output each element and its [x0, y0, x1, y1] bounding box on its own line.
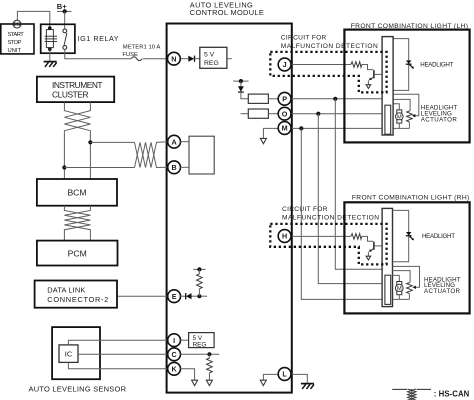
dotted box LH	[270, 52, 386, 93]
chassis ground (L)	[301, 384, 314, 389]
motor feed RH	[393, 275, 400, 281]
wire B to CAN box	[180, 166, 189, 168]
svg-text:CONTROL MODULE: CONTROL MODULE	[190, 8, 264, 17]
svg-text:ACTUATOR: ACTUATOR	[424, 288, 461, 295]
svg-text:I: I	[173, 336, 175, 345]
motor brush bottom RH	[397, 291, 402, 294]
svg-text:L: L	[282, 370, 287, 379]
svg-text:DATA LINK: DATA LINK	[47, 285, 85, 294]
pull-up power bar (E)	[193, 268, 205, 270]
wire DLC to E	[117, 295, 168, 297]
resistor (H base)	[351, 234, 362, 240]
terminal B	[168, 161, 181, 174]
K wire	[180, 369, 194, 380]
B+ junction dot	[63, 9, 67, 13]
HS-CAN legend wire	[392, 388, 407, 390]
svg-text:A: A	[171, 137, 176, 146]
svg-text:PCM: PCM	[68, 248, 87, 258]
front combination light LH box	[344, 30, 469, 143]
svg-text:: HS-CAN: : HS-CAN	[434, 389, 470, 398]
resistor (P)	[248, 94, 268, 103]
pot feed RH	[393, 271, 411, 283]
connector strip LH	[382, 37, 393, 135]
motor brush top LH	[397, 110, 402, 113]
fuse METER1 10A	[131, 57, 142, 61]
transistor Q RH	[373, 242, 375, 250]
svg-text:HEADLIGHT: HEADLIGHT	[420, 61, 453, 68]
DATA LINK CONNECTOR-2 box	[35, 281, 117, 308]
drop wire O to RH	[318, 114, 382, 284]
twisted pair BCM-PCM	[64, 206, 90, 241]
5V REG box 1	[200, 47, 227, 68]
ground arrow (C)	[206, 380, 212, 385]
svg-text:BCM: BCM	[67, 187, 86, 197]
headlight symbol RH	[406, 232, 411, 236]
svg-text:H: H	[282, 232, 287, 241]
PCM box	[37, 241, 118, 266]
instrument cluster box	[37, 77, 114, 103]
drop wire M to RH	[301, 128, 382, 299]
resistor (J base)	[351, 62, 362, 68]
wire to A twist	[90, 141, 134, 143]
ground arrow (K)	[192, 380, 198, 385]
motor brush bottom LH	[397, 120, 402, 123]
wire resistor to transistor RH	[362, 236, 374, 241]
IG1 relay box	[41, 24, 75, 53]
headlight feed loop LH	[393, 39, 409, 91]
CAN transceiver box	[189, 136, 214, 174]
wire IC to K	[68, 362, 167, 368]
svg-text:P: P	[282, 95, 287, 104]
wiper feed LH	[393, 94, 419, 115]
resistor (O)	[248, 109, 268, 118]
ground arrow (Q RH)	[366, 256, 371, 260]
motor feed LH	[393, 104, 399, 110]
wire to B twist	[64, 167, 134, 169]
svg-text:IC: IC	[65, 350, 73, 359]
motor brush top RH	[397, 282, 402, 285]
svg-text:M: M	[282, 124, 288, 133]
junction dot O	[316, 112, 320, 116]
svg-text:CONNECTOR-2: CONNECTOR-2	[47, 295, 108, 304]
ground arrow (L)	[260, 380, 266, 385]
svg-text:METER1 10 A: METER1 10 A	[123, 45, 161, 51]
svg-text:B+: B+	[57, 2, 67, 11]
connector inner rect RH	[385, 275, 391, 304]
terminal E	[168, 290, 181, 303]
svg-text:K: K	[171, 365, 177, 374]
auto leveling control module box	[167, 24, 292, 393]
wire B+ to relay switch	[64, 11, 66, 29]
BCM box	[37, 179, 117, 206]
svg-text:2S: 2S	[14, 22, 21, 28]
junction dot M	[299, 126, 303, 130]
svg-text:J: J	[283, 60, 287, 69]
svg-text:MALFUNCTION DETECTION: MALFUNCTION DETECTION	[282, 214, 379, 221]
L left wire	[263, 374, 278, 380]
ground arrow (M)	[260, 138, 266, 143]
svg-text:FRONT COMBINATION LIGHT (RH): FRONT COMBINATION LIGHT (RH)	[352, 194, 469, 201]
5V REG box 2	[189, 333, 215, 348]
terminal M	[278, 122, 291, 135]
junction dot P	[333, 97, 337, 101]
motor return RH	[393, 295, 410, 300]
front combination light RH box	[344, 202, 469, 313]
M wire to LH light	[291, 127, 382, 129]
svg-text:CLUSTER: CLUSTER	[52, 89, 89, 99]
resistor (C)	[208, 354, 210, 358]
svg-text:O: O	[282, 109, 288, 118]
stub from 5V REG	[227, 58, 232, 60]
H wire	[291, 235, 351, 237]
diode to P resistor	[240, 81, 242, 86]
terminal J	[278, 58, 291, 71]
svg-text:UNIT: UNIT	[8, 48, 22, 54]
relay coil ground wire	[49, 49, 51, 61]
junction dot (A branch)	[88, 140, 92, 144]
IC box	[59, 345, 78, 363]
relay switch	[63, 29, 67, 33]
svg-text:IG1 RELAY: IG1 RELAY	[78, 34, 119, 43]
svg-text:5 V: 5 V	[204, 51, 215, 58]
svg-text:B: B	[171, 163, 176, 172]
terminal P	[278, 92, 291, 105]
drop wire P to RH	[335, 99, 382, 269]
motor M LH	[396, 113, 404, 121]
svg-text:FUSE: FUSE	[122, 52, 138, 58]
motor return LH	[393, 123, 409, 128]
twisted pair (A/B)	[135, 142, 168, 168]
svg-text:FRONT COMBINATION LIGHT (LH): FRONT COMBINATION LIGHT (LH)	[351, 23, 468, 30]
terminal I	[168, 334, 181, 347]
wire fuse to N	[143, 58, 168, 60]
svg-text:ACTUATOR: ACTUATOR	[421, 116, 458, 123]
headlight feed loop RH	[393, 210, 409, 261]
terminal N	[168, 52, 181, 65]
terminal K	[168, 362, 181, 375]
L right wire	[291, 374, 307, 383]
START STOP UNIT box	[1, 24, 34, 54]
svg-text:N: N	[171, 54, 176, 63]
svg-text:HEADLIGHT: HEADLIGHT	[422, 233, 455, 240]
svg-text:STOP: STOP	[8, 40, 22, 46]
svg-text:CIRCUIT FOR: CIRCUIT FOR	[282, 206, 328, 213]
wire IC to C	[78, 353, 168, 355]
wire 2S to relay coil	[17, 11, 49, 27]
pull-up resistor (E)	[198, 269, 200, 273]
svg-text:REG: REG	[204, 60, 219, 67]
wiper feed RH	[393, 266, 420, 287]
terminal C	[168, 348, 181, 361]
svg-text:C: C	[171, 350, 176, 359]
svg-text:REG: REG	[193, 342, 207, 349]
wire A to CAN box	[180, 141, 189, 143]
svg-text:AUTO LEVELING SENSOR: AUTO LEVELING SENSOR	[29, 385, 127, 394]
connector 2S	[13, 20, 21, 28]
diode at E	[180, 295, 185, 297]
chassis ground (relay)	[44, 62, 57, 67]
connector strip RH	[382, 208, 392, 306]
wire N to diode	[180, 58, 188, 60]
P wire to LH light	[291, 98, 382, 100]
motor M RH	[396, 284, 404, 292]
wire I to 5V REG	[180, 339, 188, 341]
terminal O	[278, 107, 291, 120]
diode at N	[188, 56, 194, 62]
svg-text:MALFUNCTION DETECTION: MALFUNCTION DETECTION	[281, 43, 378, 50]
C wire	[180, 353, 219, 355]
terminal L	[278, 368, 291, 381]
connector inner rect LH	[385, 105, 391, 134]
wire IC to I	[68, 340, 167, 345]
relay coil	[45, 30, 57, 48]
M ground stub	[263, 128, 278, 138]
svg-text:E: E	[172, 292, 177, 301]
twisted pair cluster-BCM	[64, 102, 90, 179]
dotted box RH	[270, 224, 386, 265]
auto leveling sensor box	[52, 327, 100, 379]
J wire	[291, 64, 351, 66]
B+ supply bar	[57, 10, 72, 12]
svg-text:CIRCUIT FOR: CIRCUIT FOR	[281, 35, 327, 42]
ground arrow (Q LH)	[366, 85, 371, 89]
potentiometer RH	[407, 282, 413, 293]
pot feed LH	[393, 99, 410, 110]
junction dot (B branch)	[62, 165, 66, 169]
power tap bar (P)	[233, 80, 249, 82]
headlight symbol LH	[406, 60, 411, 64]
wire resistor to transistor	[362, 65, 374, 70]
potentiometer LH	[407, 111, 413, 122]
O wire to LH light	[291, 113, 382, 115]
wire relay to fuse	[65, 49, 131, 58]
HS-CAN legend twist	[408, 389, 417, 400]
terminal H	[278, 230, 291, 243]
resistor (O) stub	[241, 113, 249, 115]
transistor Q LH	[373, 70, 375, 78]
svg-text:START: START	[8, 32, 25, 38]
terminal A	[168, 135, 181, 148]
